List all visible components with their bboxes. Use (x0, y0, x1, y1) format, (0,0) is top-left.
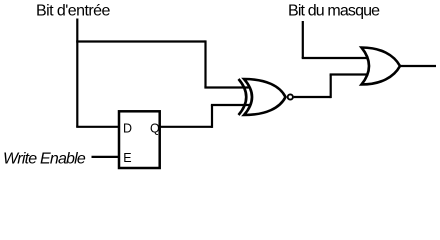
wire: branch to XNOR top input (horizontal) (76, 40, 205, 42)
wire: Write Enable to E input (92, 156, 120, 158)
flip-flop U1 (D latch) (119, 111, 160, 168)
svg-text:D: D (123, 122, 132, 136)
wire: Bit d'entree vertical drop (76, 19, 78, 127)
svg-text:Bit du masque: Bit du masque (288, 3, 380, 20)
wire: OR bottom input horizontal (330, 73, 368, 75)
xnor gate U2 body (244, 79, 286, 115)
wire: XNOR top input horizontal (204, 86, 250, 88)
wire: Bit du masque vertical drop (302, 21, 304, 58)
wire: OR top input horizontal (302, 57, 368, 59)
svg-text:Q: Q (150, 122, 160, 136)
wire: XNOR bottom input horizontal (211, 104, 250, 106)
svg-text:Bit d'entrée: Bit d'entrée (36, 3, 110, 20)
or gate U3 (362, 48, 401, 85)
svg-text:E: E (123, 151, 131, 165)
wire: Q output horizontal (160, 126, 212, 128)
xnor gate U2 extra input arc (239, 79, 247, 115)
wire: XNOR output vertical rise (330, 75, 332, 99)
svg-text:Write Enable: Write Enable (3, 151, 86, 168)
xnor gate U2 output bubble (288, 94, 293, 99)
wire: Q output vertical rise (211, 105, 213, 128)
wire: D input into flip-flop (76, 126, 119, 128)
wire: XNOR output horizontal (294, 96, 331, 98)
wire: OR output (400, 65, 436, 67)
wire: branch vertical down to XNOR top input (204, 40, 206, 87)
